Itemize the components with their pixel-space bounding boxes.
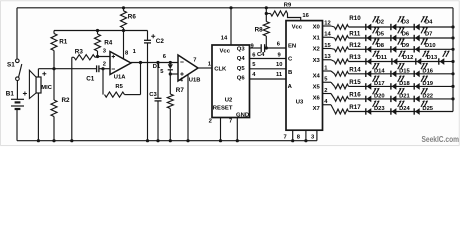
LED D17: [365, 83, 367, 89]
wire U3 X2 stub pin 15: [323, 48, 332, 50]
wire U3 pin7 gnd: [292, 130, 294, 141]
microphone MIC: [29, 69, 52, 143]
svg-text:C4: C4: [257, 52, 265, 58]
svg-text:R17: R17: [349, 104, 361, 111]
svg-text:B: B: [288, 70, 292, 76]
wire U3 X1 stub pin 14: [323, 36, 332, 38]
svg-text:X7: X7: [313, 106, 321, 112]
svg-text:R15: R15: [349, 79, 361, 86]
wire row 1: [349, 26, 366, 28]
wire U3 pin3 gnd: [316, 130, 318, 141]
svg-text:2: 2: [324, 88, 327, 94]
wire row 6: [349, 85, 366, 87]
LED D8: [365, 46, 367, 52]
capacitor C4: [250, 41, 287, 58]
svg-text:R8: R8: [255, 27, 264, 34]
wire ground bus: [17, 140, 317, 142]
svg-text:11: 11: [276, 72, 283, 78]
svg-text:X6: X6: [313, 95, 321, 101]
svg-text:C1: C1: [86, 75, 95, 82]
wire battery to ground bus: [16, 110, 18, 141]
svg-text:X2: X2: [313, 47, 321, 53]
svg-text:R9: R9: [284, 2, 292, 8]
svg-text:R1: R1: [59, 38, 68, 45]
LED D13: [415, 58, 417, 64]
resistor R8: [255, 12, 270, 48]
resistor R17: [335, 109, 349, 114]
wire row 4: [349, 61, 366, 63]
resistor R10: [335, 25, 349, 30]
svg-text:R11: R11: [349, 31, 361, 38]
svg-text:D23: D23: [374, 106, 385, 112]
diode D1: [153, 61, 173, 74]
svg-text:C3: C3: [149, 92, 157, 98]
svg-text:Q6: Q6: [237, 76, 246, 82]
svg-text:X1: X1: [313, 36, 321, 42]
wire row 3: [349, 48, 366, 50]
wire bias rail: [54, 30, 148, 32]
LED D16: [413, 71, 415, 77]
wire U3 X4 stub pin 1: [323, 70, 332, 72]
svg-text:U1A: U1A: [114, 75, 126, 81]
svg-text:R12: R12: [349, 42, 361, 49]
wire Q6 to U3 pin11: [250, 78, 287, 80]
LED D15: [390, 71, 392, 77]
svg-text:B1: B1: [6, 91, 15, 98]
wire U1A output: [131, 62, 178, 64]
svg-text:R3: R3: [75, 49, 84, 56]
svg-text:R2: R2: [62, 97, 71, 104]
wire U2 pin2 reset to ground: [220, 118, 222, 141]
LED D7: [413, 35, 415, 41]
svg-text:R14: R14: [349, 66, 361, 73]
resistor R3: [70, 49, 110, 143]
svg-text:SeekIC.com: SeekIC.com: [422, 135, 460, 144]
LED D24: [390, 108, 392, 114]
LED D22: [413, 96, 415, 102]
svg-text:14: 14: [221, 35, 228, 41]
svg-text:D16: D16: [422, 68, 433, 74]
node R5 junction: [101, 67, 104, 70]
svg-text:Vcc: Vcc: [292, 25, 303, 31]
wire U2 pin14 supply: [229, 6, 232, 9]
svg-text:X0: X0: [313, 25, 321, 31]
svg-text:D7: D7: [425, 32, 432, 38]
svg-text:D24: D24: [399, 106, 410, 112]
wire LED supply bus: [452, 8, 454, 112]
LED D20: [365, 96, 367, 102]
svg-text:C2: C2: [156, 38, 165, 45]
wire U2 pin7 gnd: [236, 118, 238, 141]
wire U3 X7 stub pin 4: [323, 104, 332, 106]
svg-text:R13: R13: [349, 54, 361, 61]
switch S1: [7, 59, 22, 80]
svg-text:C: C: [288, 57, 293, 63]
svg-text:GND: GND: [236, 112, 249, 118]
svg-text:D21: D21: [399, 94, 410, 100]
LED D3: [390, 24, 392, 30]
svg-text:2: 2: [209, 118, 212, 124]
wire signal node: [38, 68, 96, 70]
LED D14: [365, 71, 367, 77]
svg-text:D4: D4: [425, 20, 433, 26]
wire row 2: [349, 37, 366, 39]
resistor R4: [95, 29, 113, 58]
svg-text:MIC: MIC: [41, 85, 52, 91]
svg-text:D13: D13: [427, 55, 438, 61]
LED D18: [390, 83, 392, 89]
svg-text:R7: R7: [176, 87, 185, 94]
svg-text:X4: X4: [313, 74, 321, 80]
svg-text:D10: D10: [425, 43, 436, 49]
svg-text:U3: U3: [296, 100, 304, 106]
svg-text:U2: U2: [225, 98, 233, 104]
svg-text:D18: D18: [399, 81, 410, 87]
svg-text:7: 7: [193, 57, 196, 63]
counter U2: [212, 45, 250, 118]
wire row 7: [349, 98, 366, 100]
svg-text:7: 7: [229, 118, 232, 124]
svg-text:D3: D3: [402, 20, 410, 26]
LED D2: [365, 24, 367, 30]
svg-text:D19: D19: [422, 81, 433, 87]
op-amp U1A: [103, 49, 137, 81]
wire U1B output to CLK: [198, 67, 212, 69]
resistor R6: [121, 6, 137, 32]
svg-text:D25: D25: [422, 106, 433, 112]
svg-text:EN: EN: [288, 44, 296, 50]
svg-text:7: 7: [284, 134, 287, 140]
svg-text:D6: D6: [402, 32, 410, 38]
svg-text:U1B: U1B: [189, 78, 201, 84]
wire row 5: [349, 73, 366, 75]
svg-text:D5: D5: [377, 32, 385, 38]
LED unlabeled row4: [438, 58, 440, 64]
wire U3 X3 stub pin 13: [323, 59, 332, 61]
LED D10: [413, 46, 415, 52]
resistor R9: [265, 2, 310, 20]
svg-text:D8: D8: [377, 43, 385, 49]
LED D4: [413, 24, 415, 30]
wire U3 X0 stub pin 12: [323, 25, 332, 27]
svg-text:D15: D15: [399, 68, 410, 74]
svg-text:R6: R6: [128, 14, 137, 21]
svg-text:15: 15: [324, 43, 331, 49]
capacitor C2: [144, 31, 164, 143]
resistor R7: [167, 74, 184, 142]
LED D25: [413, 108, 415, 114]
wire left supply drop to S1: [16, 8, 18, 59]
svg-text:S1: S1: [7, 62, 15, 69]
svg-text:Q5: Q5: [237, 66, 246, 72]
wire U1B pin4 ground stub: [187, 75, 189, 141]
wire U3 pin8 gnd: [305, 130, 307, 141]
svg-text:Q3: Q3: [237, 46, 246, 52]
wire row 8: [349, 111, 366, 113]
svg-text:16: 16: [302, 13, 309, 19]
op-amp U1B: [163, 54, 201, 83]
LED D21: [390, 96, 392, 102]
resistor R14: [335, 71, 349, 76]
svg-text:R16: R16: [349, 92, 361, 99]
svg-text:R4: R4: [104, 39, 113, 46]
wire top supply bus: [17, 7, 453, 9]
LED D9: [390, 46, 392, 52]
svg-text:D22: D22: [422, 94, 433, 100]
svg-text:R10: R10: [349, 15, 361, 22]
svg-text:R5: R5: [115, 84, 123, 90]
resistor R11: [335, 36, 349, 41]
capacitor C1: [86, 65, 110, 82]
svg-text:D9: D9: [402, 43, 410, 49]
svg-text:D17: D17: [374, 81, 385, 87]
svg-text:10: 10: [276, 62, 282, 68]
svg-text:Vcc: Vcc: [220, 48, 231, 54]
LED D5: [365, 35, 367, 41]
resistor R1: [51, 31, 68, 69]
wire U1B pin5 stub: [169, 72, 172, 75]
svg-text:D11: D11: [377, 55, 388, 61]
battery B1: [6, 91, 27, 109]
LED D23: [365, 108, 367, 114]
svg-text:14: 14: [324, 32, 331, 38]
LED D6: [390, 35, 392, 41]
svg-text:D2: D2: [377, 20, 384, 26]
resistor R12: [335, 47, 349, 52]
demultiplexer U3: [286, 21, 323, 131]
svg-text:D12: D12: [403, 55, 414, 61]
capacitor C3: [149, 61, 161, 142]
svg-text:D14: D14: [374, 68, 385, 74]
LED D11: [365, 58, 367, 64]
resistor R16: [335, 97, 349, 102]
svg-text:RESET: RESET: [213, 106, 233, 112]
svg-text:X3: X3: [313, 58, 321, 64]
wire S1 to battery: [16, 81, 18, 100]
svg-text:A: A: [288, 84, 293, 90]
resistor R13: [335, 59, 349, 64]
wire U3 X5 stub pin 5: [323, 81, 332, 83]
wire Q5 to U3 pin10: [250, 68, 287, 70]
LED D12: [391, 58, 393, 64]
svg-text:X5: X5: [313, 85, 321, 91]
svg-text:12: 12: [324, 20, 330, 26]
svg-text:D20: D20: [374, 94, 385, 100]
resistor R5 feedback: [103, 61, 142, 97]
svg-text:CLK: CLK: [214, 67, 227, 73]
LED D19: [413, 83, 415, 89]
svg-text:Q4: Q4: [237, 56, 246, 62]
wire Q4 to U3 pin9: [250, 58, 287, 60]
wire U1A pin8 supply stub: [123, 31, 125, 59]
resistor R2: [51, 69, 70, 143]
resistor R15: [335, 84, 349, 89]
node mic-R1-R2 junction: [52, 67, 55, 70]
svg-text:13: 13: [324, 54, 331, 60]
svg-text:2: 2: [103, 62, 106, 68]
wire U3 X6 stub pin 2: [323, 93, 332, 95]
